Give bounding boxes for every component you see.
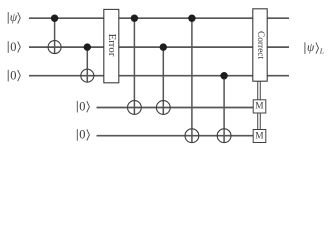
control dot	[51, 15, 58, 22]
wire q3	[29, 75, 289, 77]
wire segment right	[267, 46, 289, 48]
wire q2	[29, 46, 289, 48]
measurement box M on a2	[253, 130, 266, 143]
Correct box outline	[253, 9, 267, 81]
target oplus	[81, 69, 94, 82]
qubit label |0> row 3	[8, 70, 20, 82]
wire segment right	[267, 17, 289, 19]
target oplus	[217, 129, 231, 143]
control dot	[220, 72, 227, 79]
svg-text:L: L	[319, 47, 324, 56]
Error box	[104, 9, 119, 82]
target oplus	[156, 101, 170, 115]
wire q2 segment left	[29, 46, 104, 48]
control dot	[84, 43, 91, 50]
classical double wire from M boxes to Correct box	[258, 81, 261, 129]
svg-text:ψ: ψ	[307, 40, 315, 54]
target oplus	[48, 41, 61, 54]
wire vertical q2->q3	[86, 47, 88, 82]
svg-text:Error: Error	[106, 34, 118, 57]
target oplus	[127, 101, 141, 115]
qubit label |0> row 5	[77, 129, 89, 141]
qubit label |0> row 4	[77, 101, 89, 113]
classical wire left line	[257, 81, 259, 129]
wire ancilla a1	[97, 107, 254, 109]
svg-text:M: M	[255, 132, 264, 142]
svg-text:0: 0	[10, 40, 16, 54]
wire q1	[29, 17, 289, 19]
wire segment middle	[119, 17, 253, 19]
svg-text:0: 0	[79, 100, 85, 114]
wire segment middle	[119, 46, 253, 48]
wire vertical q3->a2	[223, 76, 225, 143]
wire ancilla a2	[97, 135, 254, 137]
wire vertical q2->a1	[162, 47, 164, 114]
measurement box M on a1	[253, 100, 266, 113]
CNOT q1->q2	[48, 15, 61, 54]
wire vertical q1->a2	[191, 18, 193, 142]
M2 box outline	[253, 130, 266, 143]
wire segment right	[267, 75, 289, 77]
output label |psi>_L	[305, 42, 319, 54]
svg-text:M: M	[255, 102, 264, 112]
wire segment middle	[119, 75, 253, 77]
CNOT q2->q3	[81, 43, 94, 82]
CNOT q3->a2	[217, 72, 231, 143]
M1 box outline	[253, 100, 266, 113]
svg-text:0: 0	[79, 128, 85, 142]
wire q1 segment left	[29, 17, 104, 19]
svg-text:ψ: ψ	[10, 10, 18, 24]
svg-text:0: 0	[10, 68, 16, 82]
CNOT q2->a1	[156, 43, 170, 114]
CNOT q1->a2	[185, 15, 199, 143]
control dot	[160, 43, 167, 50]
Error box outline	[104, 9, 119, 82]
classical wire right line	[259, 81, 261, 129]
wire q3 segment left	[29, 75, 104, 77]
qubit label |psi> row 1	[8, 12, 20, 24]
control dot	[131, 15, 138, 22]
wire vertical q1->a1	[133, 18, 135, 114]
svg-text:Correct: Correct	[255, 31, 265, 60]
qubit label |0> row 2	[8, 41, 20, 53]
CNOT q1->a1	[127, 15, 141, 115]
target oplus	[185, 129, 199, 143]
Correct box	[253, 9, 267, 81]
control dot	[188, 15, 195, 22]
wire vertical q1->q2	[54, 18, 56, 53]
